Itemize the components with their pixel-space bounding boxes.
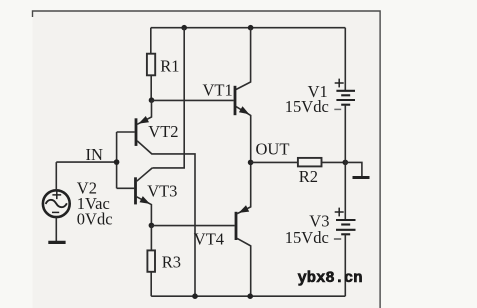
wire OUT to R2 [251, 161, 298, 163]
V2 top lead [55, 162, 57, 190]
collector lead down to bottom rail [137, 141, 195, 296]
ground symbol right [353, 176, 370, 179]
wire IN horizontal [56, 161, 116, 163]
svg-text:0Vdc: 0Vdc [77, 210, 113, 229]
junction dot bottom right [247, 293, 253, 299]
svg-text:R3: R3 [162, 253, 181, 272]
wire VT1 collector lead [236, 28, 251, 90]
wire ground tap [345, 162, 362, 176]
collector lead to bottom rail [237, 238, 251, 296]
svg-text:15Vdc: 15Vdc [285, 228, 329, 247]
resistor R3 [147, 225, 181, 296]
collector lead [137, 168, 153, 181]
svg-text:IN: IN [86, 145, 103, 164]
svg-text:ybx8.cn: ybx8.cn [298, 269, 363, 287]
resistor R2 [298, 158, 322, 186]
node top junction dot right [248, 25, 254, 31]
emitter lead [137, 197, 152, 226]
svg-text:VT4: VT4 [194, 230, 224, 249]
wire battery mid lead [344, 105, 346, 220]
border frame top [33, 11, 381, 308]
svg-text:VT2: VT2 [148, 122, 178, 141]
wire node A to VT1 base [152, 99, 234, 101]
junction dot bottom left [192, 293, 198, 299]
wire VT3 emitter to VT4 base [151, 225, 234, 227]
node VT3 emitter junction dot [149, 223, 155, 229]
wire R1 top lead [150, 28, 152, 54]
emitter lead up to node A [137, 100, 151, 124]
transistor VT4 [194, 162, 251, 296]
svg-text:VT1: VT1 [203, 80, 233, 99]
source V2 [43, 162, 113, 241]
svg-text:VT3: VT3 [147, 182, 177, 201]
svg-text:OUT: OUT [256, 140, 290, 159]
ground symbol V2 [48, 241, 65, 244]
node top junction dot left [181, 25, 187, 31]
transistor VT3 [117, 168, 178, 226]
V2 bottom lead [55, 217, 57, 241]
svg-text:15Vdc: 15Vdc [285, 97, 329, 116]
battery V3 [285, 208, 356, 247]
resistor R1 [147, 54, 180, 76]
emitter lead from OUT [237, 162, 251, 213]
wire top rail [151, 27, 345, 29]
transistor VT2 [117, 100, 195, 296]
base lead [117, 131, 135, 133]
wire VT3 collector to top rail [152, 28, 184, 168]
svg-text:R2: R2 [299, 167, 318, 186]
wire V1 top lead [344, 28, 346, 90]
wire bottom rail [151, 295, 345, 297]
transistor VT1 [203, 80, 251, 162]
node A junction dot (R1/VT2 emitter) [149, 97, 155, 103]
svg-text:R1: R1 [160, 56, 179, 75]
junction dot battery mid node [343, 160, 349, 166]
base lead [117, 187, 135, 189]
wire IN node vertical [116, 132, 118, 188]
wire R1 bottom lead [150, 75, 152, 100]
node OUT junction dot [248, 160, 254, 166]
wire R2 to battery node [322, 161, 346, 163]
wire V3 bottom lead [344, 234, 346, 296]
battery V1 [285, 79, 355, 116]
node IN junction dot [114, 159, 120, 165]
